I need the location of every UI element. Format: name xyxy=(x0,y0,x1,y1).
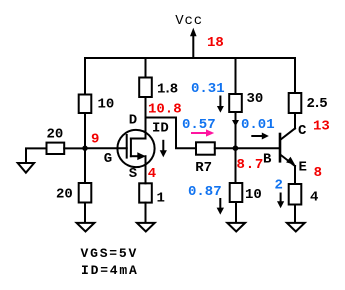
resistor R5 1k body xyxy=(139,183,152,202)
value label 20 (R3) xyxy=(56,187,73,203)
pin label S xyxy=(129,166,137,182)
value label 1 (R5) xyxy=(157,191,165,207)
ground below R10 xyxy=(287,223,305,232)
svg-text:4: 4 xyxy=(310,189,318,205)
wire drain lead R4 bottom to MOSFET xyxy=(145,97,147,139)
annotation VGS=5V xyxy=(81,246,139,261)
svg-text:0.57: 0.57 xyxy=(182,117,216,133)
current arrow 0.87 (black down) xyxy=(217,199,224,215)
transistor Q1 emitter lead with arrow xyxy=(281,155,295,166)
wire col A from rail to R1 top xyxy=(84,58,86,95)
value label 10 (R8) xyxy=(245,187,262,203)
svg-text:S: S xyxy=(129,166,137,182)
ground left input xyxy=(18,163,34,173)
node voltage 9 (red) xyxy=(91,131,99,147)
wire R10 bottom to ground xyxy=(294,205,296,223)
label ID xyxy=(152,120,169,136)
wire source lead MOSFET to R5 xyxy=(145,156,147,183)
resistor R2 20k body (horizontal) xyxy=(47,143,65,154)
resistor R7 body (horizontal) xyxy=(196,142,215,154)
resistor R1 10k body xyxy=(79,95,92,114)
svg-text:10.8: 10.8 xyxy=(148,101,182,117)
MOSFET drain inner lead xyxy=(131,138,146,140)
wire col D rail to R9 top xyxy=(294,58,296,93)
node G junction dot xyxy=(82,146,87,151)
resistor R8 10k body xyxy=(230,183,243,202)
svg-text:1.8: 1.8 xyxy=(157,82,178,98)
wire branch drain node to R7 xyxy=(146,118,197,149)
svg-text:E: E xyxy=(299,159,307,175)
svg-text:2.5: 2.5 xyxy=(307,96,328,112)
label Vcc xyxy=(175,13,203,29)
svg-text:18: 18 xyxy=(207,35,224,51)
node voltage 13 (red) xyxy=(313,118,330,134)
node voltage 8.7 (red) xyxy=(237,157,265,173)
current arrow 0.57 (magenta right) xyxy=(192,129,214,136)
wire col B rail to R4 top xyxy=(145,58,147,78)
resistor R4 1.8k body xyxy=(139,78,152,98)
pin label C xyxy=(298,123,307,139)
value label 1.8 (R4) xyxy=(157,82,178,98)
svg-text:B: B xyxy=(263,152,272,168)
node voltage 10.8 (red) xyxy=(148,101,182,117)
wire R8 bottom to ground xyxy=(235,202,237,223)
svg-text:Vcc: Vcc xyxy=(175,13,203,29)
svg-text:20: 20 xyxy=(56,187,73,203)
wire col A from R1 to node G xyxy=(84,113,86,148)
svg-text:10: 10 xyxy=(245,187,262,203)
resistor R6 30k body xyxy=(229,94,242,112)
current value 2 (blue) xyxy=(275,177,283,193)
svg-text:ID=4mA: ID=4mA xyxy=(81,263,139,278)
value label 20 (R2) xyxy=(47,126,64,142)
svg-text:2: 2 xyxy=(275,177,283,193)
current arrow 0.01 (black right) xyxy=(252,133,268,140)
wire R3 bottom to ground xyxy=(84,203,86,223)
svg-text:0.31: 0.31 xyxy=(191,81,225,97)
current value 0.01 (blue) xyxy=(241,117,275,133)
resistor R9 2.5k body xyxy=(289,93,302,113)
MOSFET source inner lead with arrow xyxy=(131,152,146,160)
resistor R3 20k body xyxy=(79,183,92,203)
svg-text:G: G xyxy=(104,151,112,167)
svg-text:ID: ID xyxy=(152,120,169,136)
current value 0.87 (blue) xyxy=(188,184,222,200)
op MOSFET M1 body circle xyxy=(117,130,154,167)
wire left input from ground corner to R2 xyxy=(26,148,47,162)
svg-text:10: 10 xyxy=(98,97,115,113)
value label 2.5 (R9) xyxy=(307,96,328,112)
svg-text:30: 30 xyxy=(247,91,264,107)
pin label B xyxy=(263,152,272,168)
node B junction dot xyxy=(233,145,239,151)
Vcc supply arrow xyxy=(190,28,197,58)
resistor R10 4k body xyxy=(289,184,302,205)
ground below R5 xyxy=(137,223,155,232)
ground below R8 xyxy=(227,223,245,232)
wire R5 bottom to ground xyxy=(145,203,147,223)
svg-text:20: 20 xyxy=(47,126,64,142)
svg-text:13: 13 xyxy=(313,118,330,134)
svg-text:1: 1 xyxy=(157,191,165,207)
svg-text:D: D xyxy=(129,112,137,128)
pin label G xyxy=(104,151,112,167)
annotation ID=4mA xyxy=(81,263,139,278)
current arrow ID (black, beside MOSFET) xyxy=(160,141,167,158)
value label 4 (R10) xyxy=(310,189,318,205)
MOSFET gate bar xyxy=(126,135,128,158)
current arrow 2 (black down) xyxy=(277,194,284,209)
pin label E xyxy=(299,159,307,175)
value label 18 (red, supply) xyxy=(207,35,224,51)
wire emitter to R10 top xyxy=(294,166,296,184)
wire R7 to node B xyxy=(215,147,236,149)
MOSFET channel bar xyxy=(130,139,132,157)
wire node G to R3 top xyxy=(84,148,86,183)
label R7 xyxy=(195,160,212,176)
svg-text:9: 9 xyxy=(91,131,99,147)
svg-text:8: 8 xyxy=(314,165,322,181)
wire gate lead node G to MOSFET gate xyxy=(85,147,127,149)
ground below R3 xyxy=(77,223,95,232)
transistor Q1 collector lead xyxy=(281,128,295,139)
current value 0.31 (blue) xyxy=(191,81,225,97)
svg-text:8.7: 8.7 xyxy=(237,157,265,173)
wire R6 bottom to node B with current arrowhead xyxy=(232,112,239,148)
svg-text:0.87: 0.87 xyxy=(188,184,222,200)
svg-text:VGS=5V: VGS=5V xyxy=(81,246,139,261)
wire col C rail to R6 top xyxy=(235,58,237,94)
wire R9 bottom to collector xyxy=(294,113,296,128)
wire node B to R8 top xyxy=(235,148,237,183)
current value 0.57 (blue) xyxy=(182,117,216,133)
svg-text:R7: R7 xyxy=(195,160,212,176)
current arrow 0.31 (black down) xyxy=(217,97,224,113)
node voltage 4 (red) xyxy=(148,166,156,182)
wire node B to BJT base xyxy=(236,147,281,149)
svg-text:4: 4 xyxy=(148,166,156,182)
svg-text:C: C xyxy=(298,123,307,139)
node voltage 8 (red) xyxy=(314,165,322,181)
value label 10 (R1) xyxy=(98,97,115,113)
transistor Q1 base bar xyxy=(279,134,282,161)
value label 30 (R6) xyxy=(247,91,264,107)
svg-text:0.01: 0.01 xyxy=(241,117,275,133)
wire top Vcc rail xyxy=(85,57,295,59)
pin label D xyxy=(129,112,137,128)
wire R2 to node G xyxy=(64,147,85,149)
